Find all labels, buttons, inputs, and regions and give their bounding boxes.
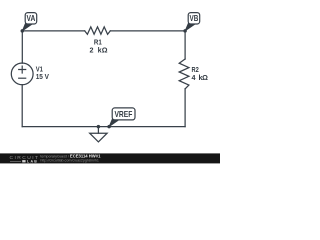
wire V1 bottom to bottom-left corner bbox=[21, 85, 23, 127]
junction dot node VB bbox=[183, 29, 187, 33]
watermark logo mark bbox=[22, 160, 25, 162]
V1 plus sign bbox=[19, 66, 26, 73]
ground stub wire bbox=[97, 127, 99, 134]
ground symbol bbox=[90, 133, 107, 142]
watermark bar bbox=[0, 153, 220, 163]
junction dot node VREF bbox=[107, 125, 111, 129]
resistor R1 bbox=[85, 27, 111, 34]
svg-text:VB: VB bbox=[190, 14, 199, 23]
wire top-right node down to R2 bbox=[184, 31, 186, 59]
wire R1 to top-right node bbox=[110, 30, 185, 32]
junction dot node VA bbox=[21, 29, 25, 33]
svg-text:http://circuitlab.com/c/uas2pg: http://circuitlab.com/c/uas2pgh8m/h1 bbox=[40, 158, 99, 162]
node flag VA pointer bbox=[22, 21, 32, 31]
wire top-left to R1 bbox=[22, 30, 84, 32]
node flag VA box bbox=[25, 13, 37, 24]
junction dot ground node bbox=[97, 125, 101, 129]
svg-text:VREF: VREF bbox=[114, 110, 132, 119]
watermark logo dashes bbox=[10, 160, 21, 163]
svg-text:15 V: 15 V bbox=[36, 72, 49, 81]
V1 minus sign bbox=[19, 77, 26, 79]
node flag VREF pointer bbox=[109, 117, 119, 127]
node flag VREF box bbox=[112, 108, 135, 120]
svg-text:LAB: LAB bbox=[27, 160, 38, 164]
bottom wire bbox=[22, 126, 185, 128]
svg-text:VA: VA bbox=[27, 14, 36, 23]
wire R2 bottom to bottom-right corner bbox=[184, 89, 186, 127]
resistor R2 bbox=[179, 59, 189, 89]
node flag VB pointer bbox=[185, 21, 195, 31]
svg-text:4 kΩ: 4 kΩ bbox=[192, 73, 209, 82]
node flag VB box bbox=[188, 13, 200, 24]
voltage source V1 bbox=[11, 63, 33, 85]
svg-text:2 kΩ: 2 kΩ bbox=[90, 46, 108, 55]
wire top-left node down to V1 bbox=[21, 31, 23, 63]
